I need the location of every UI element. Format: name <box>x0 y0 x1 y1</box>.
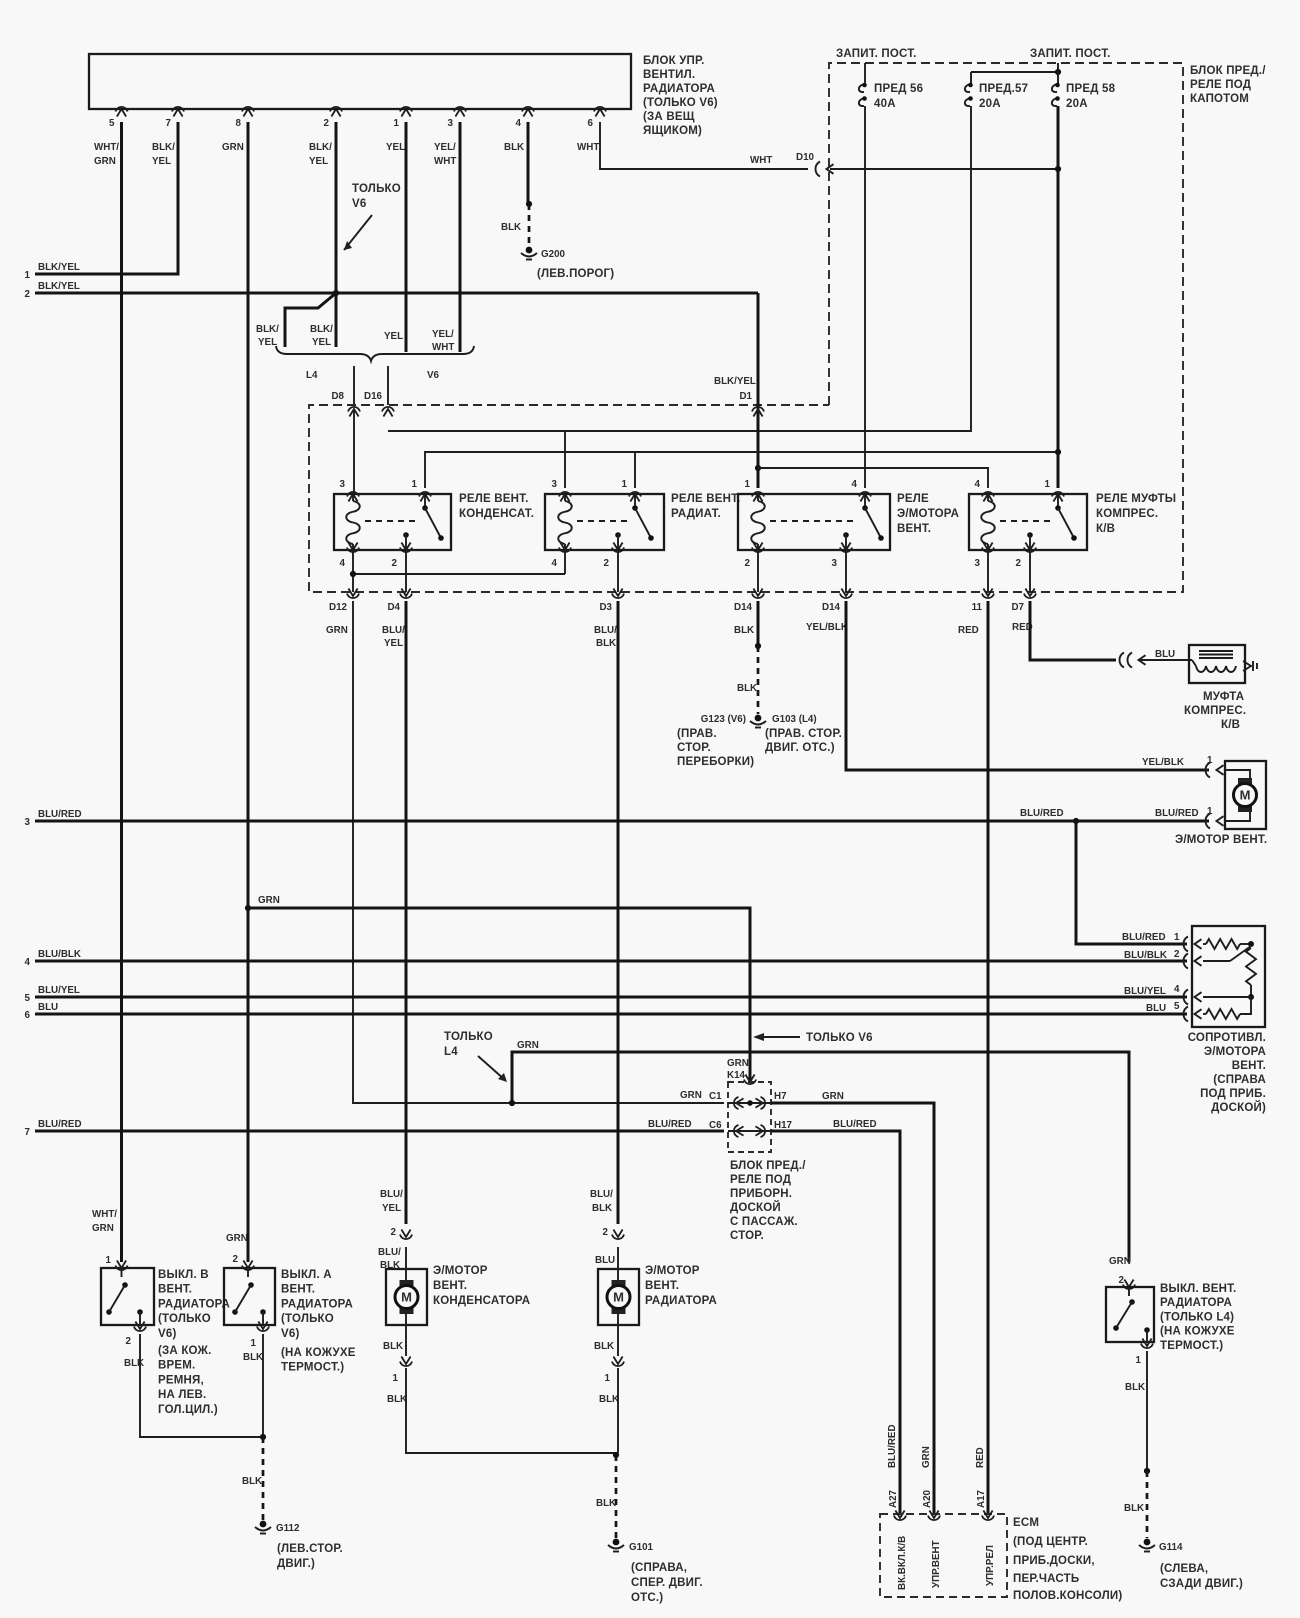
svg-text:1: 1 <box>412 479 418 490</box>
control unit pin 8 connector (GRN) <box>222 107 254 153</box>
svg-text:GRN: GRN <box>921 1446 932 1468</box>
node GRN branch <box>245 905 251 911</box>
svg-text:G101: G101 <box>629 1542 654 1553</box>
svg-text:ГОЛ.ЦИЛ.): ГОЛ.ЦИЛ.) <box>158 1404 218 1416</box>
wire: pin 6 WHT to D10 <box>600 122 808 169</box>
svg-text:WHT: WHT <box>432 342 454 353</box>
brace L4/V6 harness split <box>276 346 474 381</box>
connector D4 <box>387 589 412 614</box>
svg-text:BLU/: BLU/ <box>382 625 405 636</box>
svg-text:ДВИГ. ОТС.): ДВИГ. ОТС.) <box>765 742 835 754</box>
svg-text:С ПАССАЖ.: С ПАССАЖ. <box>730 1216 798 1228</box>
svg-text:КОНДЕНСАТОРА: КОНДЕНСАТОРА <box>433 1295 530 1307</box>
wire BLK radiator motor down <box>617 1368 619 1453</box>
svg-text:ОТС.): ОТС.) <box>631 1592 663 1604</box>
wire 6 BLU bus to resistor pin5 <box>25 1001 1187 1021</box>
node: wire2 / pin2 junction <box>333 290 339 296</box>
svg-text:4: 4 <box>516 118 522 129</box>
wire GRN branch ТОЛЬКО L4 to radiator fan switch L4 <box>512 1052 1129 1262</box>
connector D8 <box>331 391 360 417</box>
svg-text:ПРИБ.ДОСКИ,: ПРИБ.ДОСКИ, <box>1013 1555 1095 1567</box>
svg-text:ВЕНТ.: ВЕНТ. <box>158 1284 192 1296</box>
svg-text:BLU: BLU <box>1155 649 1175 660</box>
svg-text:G103 (L4): G103 (L4) <box>772 714 817 725</box>
svg-text:(ЛЕВ.ПОРОГ): (ЛЕВ.ПОРОГ) <box>537 268 614 280</box>
svg-text:C6: C6 <box>709 1120 722 1131</box>
svg-text:1: 1 <box>622 479 628 490</box>
svg-text:2: 2 <box>25 289 31 300</box>
svg-text:GRN: GRN <box>727 1058 749 1069</box>
control unit pin 6 connector (WHT) <box>577 107 606 153</box>
svg-text:2: 2 <box>745 558 751 569</box>
wire rail: relay1 pin1 / relay2 pin1 / fuse58 <box>425 452 1058 488</box>
wire: pin 3 vertical YEL/WHT <box>459 122 462 352</box>
node relay coil ground link <box>350 571 356 577</box>
condenser fan motor Э/МОТОР ВЕНТ. КОНДЕНСАТОРА <box>378 1189 530 1405</box>
svg-text:БЛОК ПРЕД./: БЛОК ПРЕД./ <box>1190 65 1266 77</box>
svg-text:РЕЛЕ: РЕЛЕ <box>897 493 929 505</box>
svg-text:V6: V6 <box>352 198 366 210</box>
ground G101 (СПРАВА, СПЕР. ДВИГ. ОТС.) <box>608 1539 703 1604</box>
connector D10 <box>796 152 833 177</box>
svg-text:RED: RED <box>975 1447 986 1468</box>
dashed BLK wire to G200 <box>501 204 529 246</box>
wire relay4 pin3 to connector 11 <box>987 550 989 592</box>
svg-text:YEL/: YEL/ <box>434 142 456 153</box>
svg-text:ECM: ECM <box>1013 1517 1039 1529</box>
svg-text:ВЫКЛ. А: ВЫКЛ. А <box>281 1269 332 1281</box>
svg-text:YEL: YEL <box>384 331 403 342</box>
svg-text:V6: V6 <box>427 370 440 381</box>
radiator fan motor Э/МОТОР ВЕНТ. РАДИАТОРА <box>590 1189 717 1405</box>
svg-text:РЕЛЕ ВЕНТ.: РЕЛЕ ВЕНТ. <box>671 493 740 505</box>
fan motor resistor СОПРОТИВЛ. Э/МОТОРА ВЕНТ. <box>1184 926 1267 1114</box>
svg-text:(ЛЕВ.СТОР.: (ЛЕВ.СТОР. <box>277 1543 343 1555</box>
svg-text:7: 7 <box>25 1127 31 1138</box>
svg-text:D8: D8 <box>331 391 344 402</box>
control unit pin 1 connector (YEL) <box>386 107 412 153</box>
svg-text:2: 2 <box>324 118 330 129</box>
svg-text:BLK: BLK <box>599 1394 619 1405</box>
svg-text:5: 5 <box>25 993 31 1004</box>
connector C6/H17 arrows <box>734 1125 765 1137</box>
svg-text:YEL: YEL <box>382 1203 401 1214</box>
svg-text:(ПРАВ. СТОР.: (ПРАВ. СТОР. <box>765 728 842 740</box>
connector D12 <box>329 589 359 614</box>
svg-text:D1: D1 <box>739 391 752 402</box>
wire: BLK/YEL branch bend to L4 side <box>285 293 336 347</box>
wire relay1 pin4 to relay2 pin4 link <box>353 550 565 592</box>
svg-text:СТОР.: СТОР. <box>730 1230 764 1242</box>
node BLK ground junction (G114) <box>1144 1468 1150 1474</box>
svg-text:YEL/BLK: YEL/BLK <box>806 622 848 633</box>
svg-text:D14: D14 <box>822 602 841 613</box>
svg-text:1: 1 <box>1136 1355 1142 1366</box>
svg-text:К/В: К/В <box>1221 719 1240 731</box>
relay РЕЛЕ ВЕНТ. РАДИАТ. (radiator fan relay) <box>545 479 740 569</box>
svg-text:BLK: BLK <box>1125 1382 1145 1393</box>
svg-text:ВК.ВКЛ.К/В: ВК.ВКЛ.К/В <box>897 1536 908 1590</box>
wire relay2 pin2 to D3 <box>617 550 619 592</box>
svg-text:WHT: WHT <box>577 142 599 153</box>
svg-text:BLK: BLK <box>1124 1503 1144 1514</box>
svg-text:6: 6 <box>25 1010 31 1021</box>
connector C1/H7 arrows <box>734 1097 765 1109</box>
svg-text:1: 1 <box>1045 479 1051 490</box>
svg-text:(ТОЛЬКО: (ТОЛЬКО <box>281 1313 334 1325</box>
wire BLU/BLK from D3 to radiator fan motor <box>617 601 620 1224</box>
svg-text:КОМПРЕС.: КОМПРЕС. <box>1184 705 1246 717</box>
connector fan motor pin1 bottom <box>1205 814 1210 829</box>
svg-text:D12: D12 <box>329 602 348 613</box>
svg-text:ВЕНТ.: ВЕНТ. <box>897 523 931 535</box>
svg-text:4: 4 <box>340 558 346 569</box>
svg-text:G114: G114 <box>1159 1542 1183 1553</box>
svg-text:СОПРОТИВЛ.: СОПРОТИВЛ. <box>1188 1032 1266 1044</box>
svg-text:2: 2 <box>604 558 610 569</box>
control unit pin 2 connector (BLK//YEL) <box>309 107 342 167</box>
wire BLK/YEL D1 drop from wire2 to relay3 pin1 <box>714 293 758 488</box>
svg-text:BLU/RED: BLU/RED <box>38 1119 82 1130</box>
svg-text:ТОЛЬКО: ТОЛЬКО <box>352 183 401 195</box>
svg-text:2: 2 <box>1174 949 1180 960</box>
svg-text:ВЫКЛ. В: ВЫКЛ. В <box>158 1269 209 1281</box>
svg-text:ПОД ПРИБ.: ПОД ПРИБ. <box>1200 1088 1266 1100</box>
svg-text:Э/МОТОР: Э/МОТОР <box>645 1265 700 1277</box>
svg-text:ПРИБОРН.: ПРИБОРН. <box>730 1188 792 1200</box>
dashed BLK to G101 <box>596 1455 616 1538</box>
svg-text:H17: H17 <box>774 1120 793 1131</box>
note ТОЛЬКО V6 with arrow (K14) <box>753 1032 873 1044</box>
wire relay4 pin2 to D7 <box>1029 550 1031 592</box>
svg-text:4: 4 <box>975 479 981 490</box>
ECM pin A27 connector ВК.ВКЛ.К/В <box>888 1489 908 1590</box>
svg-text:M: M <box>613 1290 624 1305</box>
svg-text:3: 3 <box>975 558 981 569</box>
svg-text:BLU: BLU <box>38 1002 58 1013</box>
svg-text:ПЕР.ЧАСТЬ: ПЕР.ЧАСТЬ <box>1013 1573 1079 1585</box>
svg-text:(ПРАВ.: (ПРАВ. <box>677 728 717 740</box>
svg-text:РЕЛЕ МУФТЫ: РЕЛЕ МУФТЫ <box>1096 493 1176 505</box>
svg-text:СТОР.: СТОР. <box>677 742 711 754</box>
svg-text:RED: RED <box>958 625 979 636</box>
svg-text:K14: K14 <box>727 1070 746 1081</box>
under-hood fuse/relay box dashed outline БЛОК ПРЕД./РЕЛЕ ПОД КАПОТОМ <box>309 63 1266 592</box>
node K14 GRN junction <box>747 1100 753 1106</box>
svg-text:11: 11 <box>972 602 983 613</box>
svg-text:(ТОЛЬКО V6): (ТОЛЬКО V6) <box>643 97 718 109</box>
svg-text:V6): V6) <box>158 1328 177 1340</box>
connector compressor clutch (double) <box>1120 653 1146 668</box>
svg-text:ПРЕД 56: ПРЕД 56 <box>874 83 923 95</box>
svg-text:РЕЛЕ ПОД: РЕЛЕ ПОД <box>730 1174 791 1186</box>
wire fuse56 to relay3 pin4 <box>864 106 866 488</box>
wire 2 BLK/YEL (to D1) <box>25 281 758 300</box>
node GRN L4 branch <box>509 1100 515 1106</box>
relay РЕЛЕ ВЕНТ. КОНДЕНСАТ. (condenser fan relay) <box>334 479 534 569</box>
svg-text:BLU/: BLU/ <box>590 1189 613 1200</box>
svg-text:ВЫКЛ. ВЕНТ.: ВЫКЛ. ВЕНТ. <box>1160 1283 1236 1295</box>
svg-text:L4: L4 <box>306 370 318 381</box>
svg-text:BLU/RED: BLU/RED <box>1122 932 1166 943</box>
svg-text:ТЕРМОСТ.): ТЕРМОСТ.) <box>1160 1340 1223 1352</box>
svg-text:1: 1 <box>605 1373 611 1384</box>
svg-text:BLK/: BLK/ <box>310 324 333 335</box>
svg-text:2: 2 <box>233 1254 239 1265</box>
wire label YEL/WHT <box>432 329 454 353</box>
svg-text:(НА КОЖУХЕ: (НА КОЖУХЕ <box>281 1347 356 1359</box>
svg-text:БЛОК ПРЕД./: БЛОК ПРЕД./ <box>730 1160 806 1172</box>
svg-text:КОНДЕНСАТ.: КОНДЕНСАТ. <box>459 508 534 520</box>
svg-text:BLK: BLK <box>124 1358 144 1369</box>
svg-text:BLK: BLK <box>501 222 521 233</box>
wire BLK from relay3 pin2 <box>757 601 760 646</box>
svg-text:3: 3 <box>552 479 558 490</box>
wire GRN branch to K14 <box>248 908 750 1082</box>
ECM pin A17 connector УПР.РЕЛ <box>976 1489 996 1586</box>
wire 1 BLK/YEL (to pin 7) <box>25 122 178 281</box>
svg-text:РАДИАТ.: РАДИАТ. <box>671 508 721 520</box>
wire label WHT/GRN (switch B) <box>92 1209 117 1234</box>
svg-text:YEL: YEL <box>386 142 405 153</box>
svg-text:5: 5 <box>1174 1001 1180 1012</box>
ECM dashed box <box>880 1514 1122 1602</box>
svg-text:BLK/: BLK/ <box>152 142 175 153</box>
wire label BLK/YEL (left branch) <box>256 324 279 348</box>
svg-text:РЕЛЕ ВЕНТ.: РЕЛЕ ВЕНТ. <box>459 493 528 505</box>
wire relay3 pin2 to D14 <box>757 550 759 592</box>
radiator fan switch ВЫКЛ. ВЕНТ. РАДИАТОРА (ТОЛЬКО L4) <box>1106 1256 1236 1393</box>
svg-text:BLK/YEL: BLK/YEL <box>38 262 80 273</box>
svg-text:РАДИАТОРА: РАДИАТОРА <box>281 1298 353 1310</box>
svg-text:BLK: BLK <box>243 1352 263 1363</box>
svg-text:ПРЕД.57: ПРЕД.57 <box>979 83 1028 95</box>
svg-text:(ЗА ВЕЩ: (ЗА ВЕЩ <box>643 111 695 123</box>
svg-text:4: 4 <box>1174 984 1180 995</box>
wire BLK switch A down <box>262 1334 264 1437</box>
svg-text:BLK: BLK <box>596 638 616 649</box>
svg-text:(ЗА КОЖ.: (ЗА КОЖ. <box>158 1345 212 1357</box>
node BLK ground junction (G112) <box>260 1434 266 1440</box>
svg-text:ПРЕД 58: ПРЕД 58 <box>1066 83 1116 95</box>
control unit pin 7 connector (BLK//YEL) <box>152 107 184 167</box>
svg-text:ДОСКОЙ): ДОСКОЙ) <box>1211 1101 1266 1114</box>
passenger compartment fuse/relay block БЛОК ПРЕД./РЕЛЕ ПОД ПРИБОРН. ДОСКОЙ <box>728 1082 806 1242</box>
svg-text:СПЕР. ДВИГ.: СПЕР. ДВИГ. <box>631 1577 703 1589</box>
wire RED from connector 11 to ECM A17 <box>987 601 990 1514</box>
svg-text:WHT: WHT <box>750 155 772 166</box>
svg-text:L4: L4 <box>444 1046 458 1058</box>
svg-text:G112: G112 <box>276 1523 300 1534</box>
svg-text:(ТОЛЬКО L4): (ТОЛЬКО L4) <box>1160 1311 1234 1323</box>
wire 4 BLU/BLK bus to resistor pin2 <box>25 949 1187 968</box>
wire BLK from switch B to G112 junction <box>140 1334 264 1437</box>
svg-text:ВЕНТИЛ.: ВЕНТИЛ. <box>643 69 695 81</box>
svg-text:3: 3 <box>340 479 346 490</box>
svg-text:КАПОТОМ: КАПОТОМ <box>1190 93 1249 105</box>
control unit pin 5 connector (WHT//GRN) <box>94 107 128 167</box>
ECM pin A20 connector УПР.ВЕНТ <box>922 1489 942 1588</box>
svg-text:G200: G200 <box>541 249 566 260</box>
svg-text:5: 5 <box>109 118 115 129</box>
svg-text:D3: D3 <box>599 602 612 613</box>
svg-text:1: 1 <box>1174 932 1180 943</box>
svg-text:НА ЛЕВ.: НА ЛЕВ. <box>158 1389 206 1401</box>
compressor clutch МУФТА КОМПРЕС. К/В <box>1184 645 1257 731</box>
svg-text:GRN: GRN <box>1109 1256 1131 1267</box>
svg-text:2: 2 <box>391 1227 397 1238</box>
svg-text:BLU/: BLU/ <box>594 625 617 636</box>
node rail at fuse58 <box>1055 449 1061 455</box>
svg-text:8: 8 <box>236 118 242 129</box>
ground G112 (ЛЕВ.СТОР. ДВИГ.) <box>255 1521 343 1570</box>
svg-text:ДВИГ.): ДВИГ.) <box>277 1558 315 1570</box>
wire GRN pin8 down to switch A <box>247 122 250 1262</box>
svg-text:BLU: BLU <box>1146 1003 1166 1014</box>
svg-text:20A: 20A <box>979 98 1001 110</box>
svg-text:2: 2 <box>392 558 398 569</box>
svg-text:2: 2 <box>603 1227 609 1238</box>
svg-text:GRN: GRN <box>226 1233 248 1244</box>
svg-text:1: 1 <box>394 118 400 129</box>
svg-text:(СПРАВА: (СПРАВА <box>1213 1074 1266 1086</box>
svg-text:GRN: GRN <box>680 1090 702 1101</box>
svg-text:BLK: BLK <box>737 683 757 694</box>
node on BLK wire <box>526 201 532 207</box>
radiator fan control unit box БЛОК УПР. ВЕНТИЛ. РАДИАТОРА <box>89 54 718 137</box>
svg-text:G123 (V6): G123 (V6) <box>701 714 746 725</box>
wire label BLK/YEL (pin2 branch) <box>310 324 333 348</box>
wire BLU/RED from H17 to ECM A27 <box>771 1131 900 1514</box>
svg-text:ЗАПИТ. ПОСТ.: ЗАПИТ. ПОСТ. <box>1030 48 1111 60</box>
wire relay1 pin2 to D4 <box>405 550 407 592</box>
svg-text:BLU/YEL: BLU/YEL <box>38 985 80 996</box>
svg-text:YEL: YEL <box>258 337 277 348</box>
svg-text:YEL: YEL <box>309 156 328 167</box>
svg-text:1: 1 <box>745 479 751 490</box>
svg-text:РАДИАТОРА: РАДИАТОРА <box>1160 1297 1232 1309</box>
node BLU/RED resistor branch <box>1073 818 1079 824</box>
fuse ПРЕД.57 20A <box>965 72 1028 110</box>
node relay3 pin1 junction <box>755 465 761 471</box>
svg-text:20A: 20A <box>1066 98 1088 110</box>
svg-text:Э/МОТОР ВЕНТ.: Э/МОТОР ВЕНТ. <box>1175 834 1267 846</box>
wire: pin 1 vertical YEL <box>405 122 408 352</box>
svg-text:(СЛЕВА,: (СЛЕВА, <box>1160 1563 1208 1575</box>
svg-text:BLU/RED: BLU/RED <box>1020 808 1064 819</box>
wire BLU to clutch box <box>1140 659 1192 661</box>
svg-text:M: M <box>1240 788 1251 803</box>
svg-text:BLK/YEL: BLK/YEL <box>714 376 756 387</box>
wire BLU/YEL from D4 to condenser fan motor <box>405 601 408 1224</box>
ground G200 (ЛЕВ.ПОРОГ) <box>521 247 614 280</box>
svg-text:BLK/YEL: BLK/YEL <box>38 281 80 292</box>
svg-text:BLU/RED: BLU/RED <box>648 1119 692 1130</box>
svg-text:1: 1 <box>25 270 31 281</box>
connector D3 <box>599 589 624 614</box>
svg-text:GRN: GRN <box>222 142 244 153</box>
relay РЕЛЕ Э/МОТОРА ВЕНТ. (fan motor relay) <box>738 479 959 569</box>
svg-text:ВЕНТ.: ВЕНТ. <box>281 1284 315 1296</box>
control unit pin 3 connector (YEL//WHT) <box>434 107 466 167</box>
svg-text:РЕМНЯ,: РЕМНЯ, <box>158 1374 204 1386</box>
radiator fan switch B ВЫКЛ. В ВЕНТ. РАДИАТОРА <box>101 1255 230 1416</box>
svg-text:BLK: BLK <box>387 1394 407 1405</box>
svg-text:GRN: GRN <box>822 1091 844 1102</box>
svg-text:BLU/RED: BLU/RED <box>833 1119 877 1130</box>
svg-text:BLU/RED: BLU/RED <box>887 1424 898 1468</box>
svg-text:4: 4 <box>25 957 31 968</box>
wire to D16 connector <box>387 366 389 405</box>
ТОЛЬКО V6 note with arrow (top) <box>344 183 401 250</box>
svg-text:3: 3 <box>25 817 31 828</box>
svg-text:ТОЛЬКО V6: ТОЛЬКО V6 <box>806 1032 873 1044</box>
svg-text:BLU/: BLU/ <box>378 1247 401 1258</box>
svg-text:BLK: BLK <box>592 1203 612 1214</box>
svg-text:4: 4 <box>852 479 858 490</box>
svg-text:BLU/BLK: BLU/BLK <box>38 949 81 960</box>
svg-text:1: 1 <box>251 1338 257 1349</box>
svg-text:BLU/RED: BLU/RED <box>38 809 82 820</box>
wire fuse58 to relay4 pin1 <box>1057 106 1060 488</box>
connector D7 <box>1011 589 1036 614</box>
wire YEL/BLK from relay3 pin3 to fan motor connector <box>846 601 1209 770</box>
svg-text:ЗАПИТ. ПОСТ.: ЗАПИТ. ПОСТ. <box>836 48 917 60</box>
wire: pin 2 vertical BLK/YEL <box>335 122 338 347</box>
svg-text:БЛОК УПР.: БЛОК УПР. <box>643 55 705 67</box>
svg-text:40A: 40A <box>874 98 896 110</box>
wire GRN from H7 to ECM A20 <box>771 1102 800 1105</box>
wire fuse57 link to fuse58 line <box>971 71 1058 73</box>
dashed BLK to G123/G103 ground <box>737 646 758 714</box>
svg-text:4: 4 <box>552 558 558 569</box>
radiator fan switch A ВЫКЛ. А ВЕНТ. РАДИАТОРА <box>224 1233 356 1374</box>
svg-text:BLU/BLK: BLU/BLK <box>1124 950 1167 961</box>
svg-text:Э/МОТОР: Э/МОТОР <box>433 1265 488 1277</box>
svg-text:7: 7 <box>166 118 172 129</box>
node at fuse 58 line <box>1055 166 1061 172</box>
svg-text:1: 1 <box>393 1373 399 1384</box>
dashed BLK to G114 <box>1124 1471 1147 1538</box>
svg-text:6: 6 <box>588 118 594 129</box>
svg-text:BLK: BLK <box>504 142 524 153</box>
connector D14 <box>734 589 764 614</box>
svg-text:ТЕРМОСТ.): ТЕРМОСТ.) <box>281 1362 344 1374</box>
wire relay3 pin3 to D14 <box>845 550 847 592</box>
svg-text:(СПРАВА,: (СПРАВА, <box>631 1562 687 1574</box>
svg-text:Э/МОТОРА: Э/МОТОРА <box>1204 1046 1266 1058</box>
fan motor Э/МОТОР ВЕНТ. (right) <box>1175 761 1267 846</box>
svg-text:BLU/: BLU/ <box>380 1189 403 1200</box>
svg-text:УПР.ВЕНТ: УПР.ВЕНТ <box>931 1540 942 1588</box>
connector K14 <box>727 1070 756 1084</box>
svg-text:2: 2 <box>126 1336 132 1347</box>
wire RED from D7 to compressor clutch <box>1030 601 1116 660</box>
wire GRN through K14 row C1-H7 <box>728 1102 771 1104</box>
wire GRN from D12 down to K14 C1 <box>353 601 724 1103</box>
svg-text:A17: A17 <box>976 1489 987 1508</box>
svg-text:КОМПРЕС.: КОМПРЕС. <box>1096 508 1158 520</box>
svg-text:УПР.РЕЛ: УПР.РЕЛ <box>985 1545 996 1586</box>
wire fuse57 down and left to D16 <box>388 106 971 431</box>
node BLK ground junction (G101) <box>613 1452 619 1458</box>
svg-text:YEL/BLK: YEL/BLK <box>1142 757 1184 768</box>
svg-text:ПЕРЕБОРКИ): ПЕРЕБОРКИ) <box>677 756 754 768</box>
wire 3 BLU/RED bus to fan motor <box>25 806 1213 828</box>
svg-text:GRN: GRN <box>92 1223 114 1234</box>
svg-text:ТОЛЬКО: ТОЛЬКО <box>444 1031 493 1043</box>
wire label BLU/BLK (D3) <box>594 625 617 649</box>
